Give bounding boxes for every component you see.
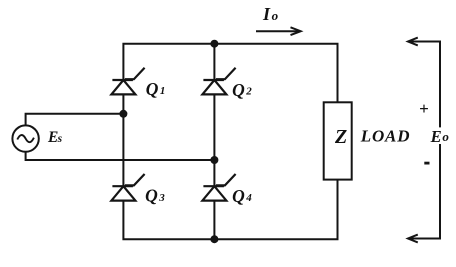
svg-text:I: I xyxy=(262,4,271,24)
label Q2 xyxy=(232,80,252,100)
label LOAD xyxy=(360,126,410,145)
wire: source bottom terminal to middle leg node xyxy=(26,152,215,160)
svg-text:s: s xyxy=(57,133,63,145)
wire: middle leg lower (Q4 to bottom rail) xyxy=(213,201,215,240)
node: junction dot source+ / left leg xyxy=(119,110,127,118)
wire: left leg top, top rail, load leg top xyxy=(123,44,337,103)
wire: left leg middle (Q1 to Q3 through source node) xyxy=(122,94,124,186)
svg-text:LOAD: LOAD xyxy=(360,126,410,145)
thyristor Q2 xyxy=(202,68,235,95)
node: junction dot source- / middle leg xyxy=(210,156,218,164)
load Z box xyxy=(324,102,352,179)
voltage bracket Eo: top arrowhead xyxy=(408,38,418,46)
wire: source top terminal to left leg node xyxy=(26,114,124,126)
wire: load leg bottom, bottom rail, left leg bottom xyxy=(123,180,337,240)
svg-text:E: E xyxy=(430,127,442,146)
node: junction dot top rail / middle leg xyxy=(210,40,218,48)
svg-text:4: 4 xyxy=(245,192,252,204)
svg-text:2: 2 xyxy=(245,86,252,98)
label Z xyxy=(334,126,347,148)
wire: middle leg middle (Q2 to Q4 through source node) xyxy=(213,94,215,186)
svg-text:Z: Z xyxy=(334,126,347,148)
svg-text:Q: Q xyxy=(146,79,159,99)
node: junction dot bottom rail / middle leg xyxy=(210,235,218,243)
voltage bracket Eo: bottom arrowhead xyxy=(408,235,418,243)
label + xyxy=(419,99,429,118)
svg-text:Q: Q xyxy=(232,186,245,206)
svg-text:Q: Q xyxy=(145,186,158,206)
current arrow Io xyxy=(256,27,301,35)
thyristor Q4 xyxy=(202,174,235,201)
voltage bracket Eo: top arm and upper vertical xyxy=(409,42,441,128)
thyristor Q3 xyxy=(111,174,144,201)
svg-text:Q: Q xyxy=(232,80,245,100)
ac source ES xyxy=(12,125,38,151)
label Io xyxy=(262,4,279,24)
voltage bracket Eo: lower vertical and bottom arm xyxy=(409,144,441,239)
svg-text:1: 1 xyxy=(160,85,166,97)
svg-text:o: o xyxy=(442,129,449,144)
svg-text:o: o xyxy=(272,8,279,23)
label - xyxy=(424,162,429,165)
label Q4 xyxy=(232,186,252,206)
label Es xyxy=(47,129,63,146)
label Eo xyxy=(430,127,450,146)
svg-text:3: 3 xyxy=(158,192,165,204)
label Q3 xyxy=(145,186,165,206)
wire: middle leg upper (top rail to Q2) xyxy=(213,44,215,80)
label Q1 xyxy=(146,79,166,99)
thyristor Q1 xyxy=(111,68,144,95)
svg-text:+: + xyxy=(419,99,429,118)
